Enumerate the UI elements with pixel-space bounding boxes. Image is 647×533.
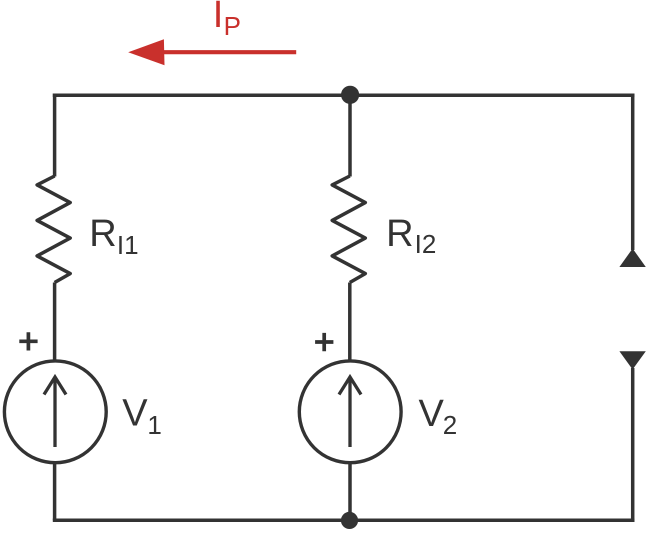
wire: RI1 to V1 <box>53 283 57 362</box>
wire: V1 to bottom bus <box>53 462 57 520</box>
wire: left branch upper <box>53 94 57 177</box>
svg-text:I1: I1 <box>117 230 139 260</box>
wire: V2 to bottom bus <box>348 462 352 520</box>
arrowhead up on right branch <box>619 249 645 268</box>
resistor RI2 <box>332 176 365 283</box>
wire: RI2 to V2 <box>348 283 352 362</box>
wire: middle branch upper <box>348 95 352 176</box>
svg-text:V: V <box>122 393 148 435</box>
voltage source V2 arrow <box>348 378 351 448</box>
svg-text:R: R <box>89 213 116 255</box>
wire: top bus <box>53 94 635 98</box>
wire: right branch lower <box>631 368 635 522</box>
voltage source V1 arrow <box>53 378 56 448</box>
svg-text:P: P <box>224 11 241 41</box>
svg-text:V: V <box>419 393 445 435</box>
current arrow IP head <box>128 39 164 65</box>
node: bottom junction dot <box>341 512 358 529</box>
svg-text:I2: I2 <box>415 229 437 259</box>
svg-text:2: 2 <box>443 410 457 440</box>
svg-text:1: 1 <box>147 410 161 440</box>
polarity plus for V1 <box>19 332 37 350</box>
arrowhead down on right branch <box>619 351 645 369</box>
svg-text:I: I <box>213 0 224 36</box>
polarity plus for V2 <box>315 333 333 351</box>
svg-text:R: R <box>386 213 413 255</box>
voltage source V2 circle <box>299 361 401 463</box>
current arrow IP shaft <box>160 50 296 54</box>
wire: bottom bus <box>53 519 635 523</box>
voltage source V1 circle <box>4 361 106 463</box>
node: top junction dot <box>341 86 359 104</box>
wire: right branch upper <box>631 94 635 251</box>
resistor RI1 <box>37 176 70 283</box>
